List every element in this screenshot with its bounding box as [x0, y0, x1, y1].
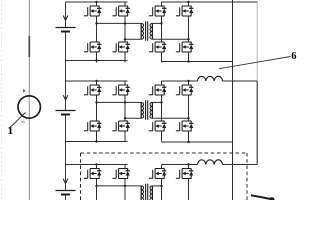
cut-off leader for label 7	[251, 195, 270, 199]
polarity mark plus	[23, 89, 25, 93]
AC source circle	[18, 96, 40, 118]
module 1 secondary bottom rail to bus	[162, 61, 233, 63]
current arrow into B2	[63, 95, 68, 100]
svg-text:6: 6	[291, 51, 296, 62]
junction dot module 1 bottom rail leg 1	[95, 59, 97, 61]
junction dot module 1 bottom rail leg 2	[187, 60, 189, 62]
module 2 converter core	[84, 80, 193, 142]
AC grid line darker segment	[28, 36, 30, 57]
series battery chain wire	[65, 2, 67, 200]
battery B2	[56, 111, 76, 115]
dashed module enclosure box	[81, 153, 248, 200]
module 3 filter inductor	[198, 160, 223, 165]
cut-off arrowhead blob	[269, 197, 274, 201]
polarity mark minus	[21, 121, 25, 123]
leader line for label 6	[219, 57, 291, 69]
module 1 converter core	[84, 1, 193, 63]
AC grid line (left)	[28, 0, 30, 200]
current arrow into B3	[63, 179, 68, 184]
module 3 primary top rail	[66, 164, 128, 166]
module 3 secondary top rail	[162, 164, 198, 166]
module 2 secondary top rail	[162, 80, 198, 82]
DC bus B upper (light)	[256, 2, 258, 81]
junction dot module 2 bottom rail leg 1	[95, 140, 97, 142]
leader line for label 1	[9, 113, 26, 129]
battery B1	[56, 28, 76, 32]
scan noise dots along left edge	[1, 0, 3, 200]
module 1 primary top rail	[66, 1, 128, 3]
module 1 secondary top rail to output bus	[162, 1, 258, 3]
module 3 converter core	[84, 163, 193, 225]
DC bus B lower	[256, 81, 258, 165]
module 2 filter inductor	[198, 76, 223, 81]
module 2 primary bottom rail	[66, 141, 128, 143]
module 2 primary top rail	[66, 80, 128, 82]
module 3 inductor output wire to bus	[223, 164, 258, 166]
module 1 primary bottom rail	[66, 60, 128, 62]
module 2 secondary bottom rail to bus	[162, 141, 233, 143]
junction dot module 2 bottom rail leg 2	[187, 141, 189, 143]
battery B3	[56, 191, 76, 195]
DC bus A vertical	[232, 0, 234, 200]
module 2 inductor output wire to bus	[223, 80, 258, 82]
current arrow into B1	[63, 15, 68, 20]
